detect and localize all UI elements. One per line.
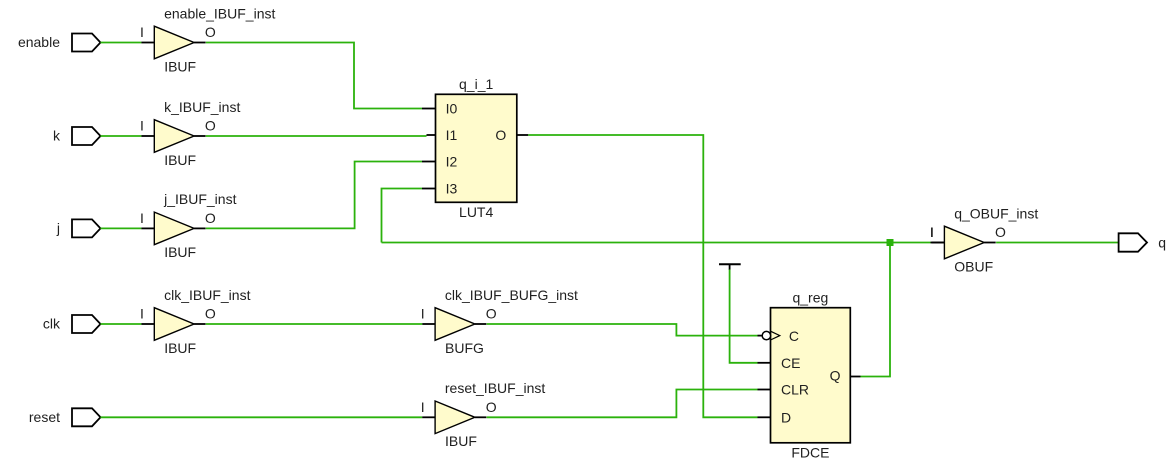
port clk	[43, 315, 101, 333]
wire BUFG to FDCE C	[487, 324, 758, 336]
svg-text:O: O	[486, 306, 497, 322]
svg-text:reset_IBUF_inst: reset_IBUF_inst	[445, 380, 545, 396]
FDCE C clock chevron	[771, 331, 780, 340]
svg-text:I1: I1	[446, 127, 458, 143]
svg-text:IBUF: IBUF	[164, 58, 196, 74]
svg-text:IBUF: IBUF	[164, 340, 196, 356]
wire FDCE Q pin stub	[850, 376, 860, 378]
buffer enable_IBUF_inst (IBUF)	[140, 5, 275, 74]
port j	[56, 219, 101, 237]
svg-text:j_IBUF_inst: j_IBUF_inst	[163, 191, 236, 207]
svg-text:CE: CE	[781, 355, 800, 371]
svg-text:D: D	[781, 409, 791, 425]
svg-text:j: j	[56, 220, 60, 236]
FDCE C clock bubble	[762, 331, 770, 339]
svg-text:q: q	[1158, 235, 1166, 251]
svg-text:I2: I2	[446, 154, 458, 170]
port k	[53, 127, 101, 145]
wire FDCE C pin stub	[758, 335, 763, 337]
svg-text:I: I	[140, 118, 144, 134]
svg-text:O: O	[495, 127, 506, 143]
buffer reset_IBUF_inst (IBUF)	[421, 380, 546, 449]
LUT4 q_i_1	[436, 76, 517, 220]
wire LUT O to FDCE D	[528, 135, 757, 417]
wire LUT I3 pin stub	[422, 188, 436, 190]
wire feedback to LUT I3	[382, 189, 423, 243]
svg-text:q_i_1: q_i_1	[459, 76, 493, 92]
wire FDCE CE pin stub	[758, 362, 771, 364]
const1 tie (T-bar)	[719, 264, 741, 270]
svg-text:enable_IBUF_inst: enable_IBUF_inst	[164, 5, 275, 21]
wire LUT O pin stub	[517, 134, 528, 136]
svg-text:clk: clk	[43, 316, 61, 332]
svg-text:OBUF: OBUF	[954, 258, 993, 274]
wire reset_IBUF to FDCE CLR	[487, 390, 758, 418]
svg-text:k: k	[53, 128, 61, 144]
wire FDCE CLR pin stub	[758, 389, 771, 391]
svg-text:I: I	[140, 210, 144, 226]
wire OBUF to q port	[996, 242, 1119, 244]
buffer q_OBUF_inst (OBUF)	[930, 205, 1038, 274]
wire OBUF input stub	[931, 242, 945, 244]
svg-text:I: I	[421, 306, 425, 322]
svg-text:q_OBUF_inst: q_OBUF_inst	[954, 205, 1038, 221]
svg-text:LUT4: LUT4	[459, 204, 493, 220]
svg-text:Q: Q	[830, 368, 841, 384]
svg-text:O: O	[995, 224, 1006, 240]
port enable	[18, 34, 101, 52]
svg-text:O: O	[205, 24, 216, 40]
wire j_IBUF to LUT I2	[206, 162, 422, 229]
wire LUT I1 pin stub	[427, 134, 436, 136]
svg-text:C: C	[789, 328, 799, 344]
FDCE q_reg	[762, 290, 850, 461]
buffer clk_IBUF_inst (IBUF)	[140, 287, 251, 356]
svg-text:O: O	[205, 306, 216, 322]
wire LUT I0 pin stub	[422, 108, 436, 110]
svg-text:IBUF: IBUF	[164, 244, 196, 260]
wire k_IBUF to LUT I1	[206, 135, 427, 137]
wire FDCE Q up to feedback	[861, 243, 891, 377]
wire enable_IBUF to LUT I0	[206, 43, 422, 109]
svg-text:enable: enable	[18, 34, 60, 50]
svg-text:CLR: CLR	[781, 382, 809, 398]
wire j port to IBUF	[101, 227, 142, 229]
svg-text:I: I	[421, 399, 425, 415]
svg-text:clk_IBUF_BUFG_inst: clk_IBUF_BUFG_inst	[445, 287, 578, 303]
wire LUT I2 pin stub	[422, 161, 436, 163]
svg-text:O: O	[486, 399, 497, 415]
svg-text:IBUF: IBUF	[164, 152, 196, 168]
svg-text:BUFG: BUFG	[445, 340, 484, 356]
wire FDCE D pin stub	[758, 416, 771, 418]
wire reset port to IBUF	[101, 416, 423, 418]
svg-text:I: I	[140, 306, 144, 322]
svg-text:k_IBUF_inst: k_IBUF_inst	[164, 99, 240, 115]
wire feedback horizontal q_OBUF net	[382, 242, 931, 244]
buffer k_IBUF_inst (IBUF)	[140, 99, 240, 168]
svg-text:O: O	[205, 118, 216, 134]
port q (output)	[1119, 233, 1166, 251]
buffer clk_IBUF_BUFG_inst (BUFG)	[421, 287, 578, 356]
svg-text:I: I	[140, 24, 144, 40]
wire k port to IBUF	[101, 135, 142, 137]
junction at Q feedback	[887, 239, 894, 246]
svg-text:O: O	[205, 210, 216, 226]
wire clk port to IBUF	[101, 323, 142, 325]
svg-text:I3: I3	[446, 181, 458, 197]
svg-text:clk_IBUF_inst: clk_IBUF_inst	[164, 287, 250, 303]
svg-text:I0: I0	[446, 101, 458, 117]
svg-text:q_reg: q_reg	[792, 290, 828, 306]
wire const to FDCE CE	[730, 270, 758, 363]
svg-text:reset: reset	[29, 409, 60, 425]
port reset	[29, 408, 101, 426]
svg-text:IBUF: IBUF	[445, 433, 477, 449]
svg-text:FDCE: FDCE	[791, 444, 829, 460]
wire enable port to IBUF	[101, 42, 142, 44]
buffer j_IBUF_inst (IBUF)	[140, 191, 237, 260]
svg-text:I: I	[930, 224, 934, 240]
wire clk_IBUF to BUFG	[206, 323, 422, 325]
